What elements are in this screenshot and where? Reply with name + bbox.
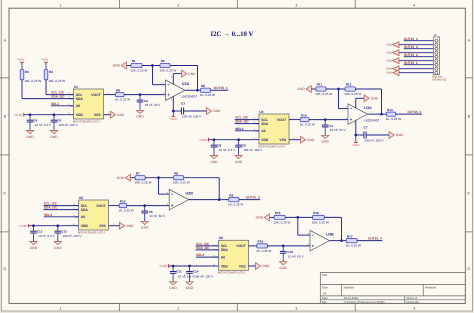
svg-text:SEL4: SEL4	[196, 253, 204, 257]
capacitor C4	[27, 115, 52, 131]
resistor R1 10K	[130, 59, 147, 72]
svg-text:SDA_I2C: SDA_I2C	[235, 120, 249, 124]
wire Ra to Rb	[142, 65, 160, 67]
wire	[21, 80, 23, 99]
svg-text:U2A: U2A	[182, 82, 190, 86]
svg-text:A0: A0	[81, 215, 85, 219]
junction	[53, 113, 56, 116]
capacitor C5	[141, 206, 166, 222]
ground pin 8	[386, 66, 399, 72]
svg-text:GND: GND	[26, 135, 34, 139]
wire SEL3 net	[44, 216, 79, 218]
junction	[32, 224, 35, 227]
svg-text:C11: C11	[176, 270, 182, 274]
wire Ra to Rb	[145, 177, 173, 179]
svg-text:GND: GND	[54, 246, 62, 250]
svg-text:1K, 0.25 W: 1K, 0.25 W	[118, 209, 133, 213]
ground	[136, 110, 144, 118]
junction	[188, 265, 191, 268]
svg-text:10 nF, 6.3 V: 10 nF, 6.3 V	[38, 234, 55, 238]
ground pin 2	[386, 42, 399, 48]
wire V+ supply pin	[172, 96, 174, 111]
svg-text:10 nF, 6.3 V: 10 nF, 6.3 V	[219, 148, 236, 152]
op-amp U3B	[308, 230, 335, 251]
svg-text:SEL2: SEL2	[235, 127, 243, 131]
wire to Rout	[342, 240, 347, 242]
svg-text:R15: R15	[275, 211, 281, 215]
ground	[235, 156, 243, 164]
ground	[280, 262, 288, 270]
wire to output label	[357, 240, 382, 242]
wire OUT10_4 to connector pin 1	[404, 40, 434, 42]
wire cap to gnd	[184, 110, 207, 112]
junction output	[196, 89, 199, 92]
wire Rb to output node	[356, 88, 382, 90]
resistor R3 10K pull-up	[20, 70, 41, 83]
wire V- pin to gnd	[172, 74, 174, 85]
wire to Rout	[382, 113, 387, 115]
svg-text:1K, 0.25 W: 1K, 0.25 W	[346, 244, 361, 248]
capacitor C6	[51, 115, 79, 131]
svg-text:10K, 0.25 W: 10K, 0.25 W	[24, 79, 41, 83]
ground V-	[364, 95, 379, 102]
capacitor C8	[211, 140, 236, 156]
ground VSS	[120, 222, 135, 229]
junction	[56, 224, 59, 227]
svg-text:R8: R8	[174, 171, 178, 175]
svg-text:VSS: VSS	[279, 138, 287, 142]
wire Rin to opamp	[127, 205, 170, 207]
svg-text:GND: GND	[126, 224, 134, 228]
svg-text:VDD: VDD	[221, 264, 229, 268]
svg-text:10 nF, 50 V: 10 nF, 50 V	[149, 214, 166, 218]
junction	[237, 138, 240, 141]
svg-text:VOUT: VOUT	[91, 93, 101, 97]
svg-text:C9: C9	[242, 143, 246, 147]
capacitor C11	[170, 266, 195, 282]
svg-text:100 nF, 100 V: 100 nF, 100 V	[365, 139, 385, 143]
svg-text:10 nF, 50 V: 10 nF, 50 V	[145, 103, 162, 107]
svg-text:GND: GND	[141, 226, 149, 230]
capacitor C14	[186, 266, 214, 282]
svg-text:LM2904DT: LM2904DT	[364, 118, 380, 122]
svg-text:SDA: SDA	[76, 97, 84, 101]
svg-text:GND: GND	[30, 246, 38, 250]
resistor R15 10K	[273, 211, 290, 224]
svg-text:MCP4725A0T-E/CH: MCP4725A0T-E/CH	[78, 230, 105, 234]
svg-text:R7: R7	[136, 171, 140, 175]
svg-text:GND: GND	[307, 138, 315, 142]
svg-text:1: 1	[60, 3, 62, 7]
svg-text:C3: C3	[181, 102, 185, 106]
svg-text:R12: R12	[346, 83, 352, 87]
power +12V R3	[17, 58, 25, 63]
svg-text:10K, 0.25 W: 10K, 0.25 W	[344, 92, 361, 96]
svg-text:SDA_I2C: SDA_I2C	[51, 95, 65, 99]
ground	[30, 242, 38, 250]
wire SEL2 net	[235, 130, 259, 132]
op-amp U2B	[167, 189, 194, 210]
svg-text:100 nF, 100 V: 100 nF, 100 V	[182, 115, 202, 119]
svg-text:R16: R16	[120, 199, 126, 203]
wire VOUT to Rin	[293, 119, 301, 121]
svg-text:R19: R19	[258, 240, 264, 244]
ground	[207, 108, 222, 115]
DAC U5 MCP4725	[78, 196, 109, 235]
pin stubs U4	[256, 119, 260, 121]
svg-text:+12V: +12V	[352, 143, 360, 147]
svg-text:U2B: U2B	[186, 192, 194, 196]
svg-text:Drawn By:: Drawn By:	[406, 300, 420, 304]
wire SEL1 net	[51, 105, 74, 107]
svg-text:GND: GND	[371, 96, 379, 100]
wire inverting input	[338, 89, 340, 109]
svg-text:10K, 0.25 W: 10K, 0.25 W	[48, 79, 65, 83]
capacitor C13	[55, 226, 83, 242]
resistor R5 1K	[115, 88, 130, 101]
ground pin 6	[386, 58, 399, 64]
junction	[324, 118, 327, 121]
svg-text:GND: GND	[117, 176, 125, 180]
svg-text:2: 2	[177, 3, 179, 7]
svg-text:1K, 0.25 W: 1K, 0.25 W	[256, 249, 271, 253]
wire to +12V	[355, 135, 357, 143]
wire Ra to Rb	[326, 88, 345, 90]
svg-text:+12V: +12V	[17, 58, 25, 62]
ground pin 4	[386, 50, 399, 56]
svg-text:4: 4	[413, 3, 415, 7]
power +12V R4	[41, 58, 49, 63]
op-amp U3A	[346, 104, 380, 125]
svg-text:OUT10_2: OUT10_2	[404, 53, 418, 57]
svg-text:File: File	[322, 300, 327, 304]
wire SCL net	[196, 245, 219, 247]
wire gnd to Ra	[131, 177, 135, 179]
ground VSS	[256, 263, 271, 270]
svg-text:U3A: U3A	[364, 106, 372, 110]
junction	[172, 265, 175, 268]
power +3.3V	[23, 113, 25, 117]
svg-text:VDD: VDD	[76, 113, 84, 117]
resistor R12 10K	[344, 83, 361, 96]
svg-text:R2: R2	[161, 59, 165, 63]
svg-text:GND: GND	[136, 115, 144, 119]
junction	[29, 113, 32, 116]
svg-text:R11: R11	[317, 83, 323, 87]
svg-text:3: 3	[295, 307, 297, 311]
svg-text:GND: GND	[50, 135, 58, 139]
wire VSS	[107, 114, 111, 116]
svg-text:GND: GND	[386, 72, 392, 75]
svg-text:SEL3: SEL3	[44, 213, 52, 217]
wire SDA net	[235, 123, 259, 125]
wire VSS	[252, 265, 256, 267]
wire OUT10_2 to connector pin 5	[404, 56, 434, 58]
wire gnd to Ra	[127, 65, 131, 67]
svg-text:LM2904DT: LM2904DT	[182, 95, 198, 99]
svg-text:+3.3V: +3.3V	[199, 138, 208, 142]
svg-text:SDA: SDA	[81, 208, 89, 212]
svg-text:C8: C8	[217, 143, 221, 147]
ground	[141, 221, 149, 229]
ground	[50, 131, 58, 139]
svg-text:OUT10_4: OUT10_4	[404, 37, 418, 41]
svg-text:OUT10_4: OUT10_4	[368, 237, 382, 241]
svg-text:10K, 0.25 W: 10K, 0.25 W	[130, 68, 147, 72]
resistor R18 10K	[312, 211, 329, 224]
svg-text:+3.3V: +3.3V	[159, 264, 168, 268]
svg-text:I2C → 0...10 V: I2C → 0...10 V	[211, 31, 254, 38]
power +3.3V	[168, 264, 170, 268]
power +3.3V	[27, 224, 29, 228]
op-amp U2A	[163, 80, 197, 101]
svg-text:MCP4725A0T-E/CH: MCP4725A0T-E/CH	[258, 144, 285, 148]
power +12V	[170, 117, 178, 122]
svg-text:GND: GND	[322, 140, 330, 144]
ground	[26, 131, 34, 139]
svg-text:R5: R5	[116, 88, 120, 92]
ground	[169, 282, 177, 290]
wire cap to gnd	[366, 134, 389, 136]
svg-text:Size: Size	[322, 285, 328, 289]
svg-text:SDA: SDA	[221, 248, 229, 252]
wire SCL net	[235, 119, 259, 121]
svg-text:U4: U4	[259, 110, 263, 114]
DAC U4 MCP4725	[258, 110, 289, 149]
svg-text:SDA: SDA	[261, 122, 269, 126]
junction	[213, 138, 216, 141]
svg-text:Number: Number	[344, 285, 355, 289]
svg-text:SEL1: SEL1	[51, 102, 59, 106]
wire gnd to connector pin 4	[399, 52, 434, 54]
wire SCL net	[46, 94, 74, 96]
svg-text:R14: R14	[301, 113, 307, 117]
junction output	[380, 113, 383, 116]
svg-text:VOUT: VOUT	[236, 244, 246, 248]
svg-text:GND: GND	[386, 52, 392, 55]
svg-text:GND: GND	[396, 133, 404, 137]
capacitor C7 100nF	[364, 126, 385, 143]
ground	[322, 135, 330, 143]
svg-text:GND: GND	[262, 264, 270, 268]
junction feedback	[337, 88, 340, 91]
svg-text:R6: R6	[201, 84, 205, 88]
svg-text:VDD: VDD	[261, 138, 269, 142]
svg-text:10K, 0.25 W: 10K, 0.25 W	[159, 68, 176, 72]
svg-text:GND: GND	[386, 44, 392, 47]
ground	[186, 282, 194, 290]
wire	[45, 62, 47, 69]
wire inverting input	[297, 217, 299, 235]
wire gnd to connector pin 6	[399, 60, 434, 62]
DAC U6 MCP4725	[218, 236, 249, 275]
svg-text:R9: R9	[229, 193, 233, 197]
wire Rb to output node	[324, 216, 341, 218]
wire gnd to connector pin 2	[399, 44, 434, 46]
junction feedback	[157, 176, 160, 179]
pin stubs U5	[75, 205, 79, 207]
svg-text:GND: GND	[210, 160, 218, 164]
wire opamp output	[368, 113, 382, 115]
wire VOUT to Rin	[252, 245, 257, 247]
svg-text:R17: R17	[347, 234, 353, 238]
svg-text:+3.3V: +3.3V	[14, 113, 23, 117]
svg-text:VSS: VSS	[239, 264, 247, 268]
svg-text:VOUT: VOUT	[96, 204, 106, 208]
wire Rb to output node	[170, 65, 198, 67]
resistor R19 1K	[256, 240, 271, 253]
ground feedback	[297, 86, 311, 93]
wire to supply cap	[356, 134, 364, 136]
wire to Rout	[219, 199, 229, 201]
svg-text:10 nF, 50 V: 10 nF, 50 V	[330, 128, 347, 132]
svg-text:1K, 0.25 W: 1K, 0.25 W	[300, 123, 315, 127]
capacitor C3 100nF	[181, 102, 202, 119]
wire	[45, 80, 47, 95]
svg-text:VOUT: VOUT	[277, 118, 287, 122]
svg-text:GND: GND	[386, 60, 392, 63]
wire V+ supply pin	[355, 120, 357, 135]
svg-text:VSS: VSS	[94, 113, 102, 117]
svg-text:10K, 0.25 W: 10K, 0.25 W	[312, 220, 329, 224]
svg-text:GND: GND	[256, 216, 264, 220]
wire Rin to opamp	[124, 94, 166, 96]
wire SDA net	[196, 249, 219, 251]
ground feedback	[256, 214, 270, 221]
svg-text:GND: GND	[188, 72, 196, 76]
wire to output label	[211, 89, 229, 91]
wire OUT10_1 to connector pin 7	[404, 64, 434, 66]
svg-text:GND: GND	[169, 286, 177, 290]
svg-text:A0: A0	[76, 104, 80, 108]
ground	[54, 242, 62, 250]
junction	[282, 245, 285, 248]
ground VSS	[301, 136, 316, 143]
wire SEL4 net	[196, 256, 219, 258]
resistor R13 1K	[386, 108, 401, 121]
wire Rb to output node	[184, 177, 220, 179]
svg-text:OUT10_2: OUT10_2	[408, 110, 422, 114]
svg-text:GND: GND	[235, 160, 243, 164]
svg-text:10 nF, 6.3 V: 10 nF, 6.3 V	[35, 123, 52, 127]
svg-text:4: 4	[413, 307, 415, 311]
svg-text:R13: R13	[387, 108, 393, 112]
svg-text:C4: C4	[33, 118, 37, 122]
svg-text:U1: U1	[74, 85, 78, 89]
wire V- pin to gnd	[355, 98, 357, 108]
wire to output label	[396, 113, 422, 115]
svg-text:+12V: +12V	[41, 58, 49, 62]
resistor R14 1K	[300, 113, 315, 126]
wire VDD rail	[209, 139, 256, 141]
wire to output label	[239, 199, 260, 201]
svg-text:100 nF, 100 V: 100 nF, 100 V	[194, 274, 214, 278]
zone tick marks	[119, 0, 121, 8]
ground VSS	[111, 111, 126, 118]
wire VDD rail	[169, 265, 216, 267]
svg-text:U3B: U3B	[326, 233, 334, 237]
wire VSS	[112, 225, 120, 227]
svg-text:10K, 0.25 W: 10K, 0.25 W	[134, 181, 151, 185]
svg-text:R4: R4	[49, 70, 53, 74]
svg-text:R3: R3	[25, 70, 29, 74]
svg-text:+12V: +12V	[170, 117, 178, 121]
svg-text:100 nF, 100 V: 100 nF, 100 V	[62, 234, 82, 238]
wire to Rout	[198, 89, 201, 91]
wire VSS	[293, 139, 301, 141]
resistor R7 10K	[134, 171, 151, 184]
wire gnd to connector pin 9	[399, 72, 434, 74]
svg-text:SDA_I2C: SDA_I2C	[44, 206, 58, 210]
svg-text:+3.3V: +3.3V	[19, 224, 28, 228]
wire opamp output	[189, 199, 220, 201]
svg-text:R18: R18	[313, 211, 319, 215]
power +12V	[352, 143, 360, 148]
svg-text:1: 1	[60, 307, 62, 311]
svg-text:U5: U5	[79, 196, 83, 200]
resistor R11 10K	[315, 83, 332, 96]
wire VOUT to Rin	[107, 94, 116, 96]
wire Rin to opamp	[267, 245, 310, 247]
svg-text:10 nF, 6.3 V: 10 nF, 6.3 V	[178, 274, 195, 278]
resistor R9 1K	[228, 193, 243, 206]
capacitor C9	[235, 140, 263, 156]
svg-text:GND: GND	[113, 64, 121, 68]
wire inverting input	[158, 178, 160, 194]
svg-text:GND: GND	[386, 68, 392, 71]
svg-text:C13: C13	[61, 229, 67, 233]
svg-text:A47981-ND: A47981-ND	[432, 79, 446, 82]
svg-text:J2: J2	[434, 33, 437, 37]
wire inverting input	[152, 66, 154, 85]
wire gnd to Ra	[270, 216, 274, 218]
wire VDD rail	[24, 114, 70, 116]
svg-text:OUT10_1: OUT10_1	[404, 61, 418, 65]
wire Ra to Rb	[285, 216, 312, 218]
connector J2 Digi-Key A47981-ND	[432, 33, 446, 82]
pin stubs U6	[215, 245, 219, 247]
wire Rin to opamp	[309, 119, 348, 121]
junction output	[340, 239, 343, 242]
svg-text:100 nF, 100 V: 100 nF, 100 V	[59, 123, 79, 127]
svg-text:100 nF, 100 V: 100 nF, 100 V	[243, 148, 263, 152]
resistor R6 1K	[200, 84, 215, 97]
wire VOUT to Rin	[112, 205, 119, 207]
svg-text:C6: C6	[57, 118, 61, 122]
ground pin 9	[386, 70, 399, 76]
wire	[21, 62, 23, 69]
wire to +12V	[172, 111, 174, 117]
junction	[143, 204, 146, 207]
svg-text:GND: GND	[186, 286, 194, 290]
ground feedback	[113, 62, 127, 69]
capacitor C1	[322, 120, 347, 136]
svg-text:U6: U6	[219, 236, 223, 240]
resistor R17 1K	[346, 234, 361, 247]
svg-text:R1: R1	[132, 59, 136, 63]
svg-text:VDD: VDD	[81, 224, 89, 228]
wire SDA net	[22, 98, 74, 100]
junction	[139, 93, 142, 96]
resistor R2 10K	[159, 59, 176, 72]
svg-text:1K, 0.25 W: 1K, 0.25 W	[200, 93, 215, 97]
power +3.3V	[208, 138, 210, 142]
svg-text:OUT10_3: OUT10_3	[246, 196, 260, 200]
resistor R4 10K pull-up	[44, 70, 65, 83]
junction output	[218, 198, 221, 201]
capacitor C12	[30, 226, 55, 242]
DAC U1 MCP4725	[73, 85, 104, 124]
